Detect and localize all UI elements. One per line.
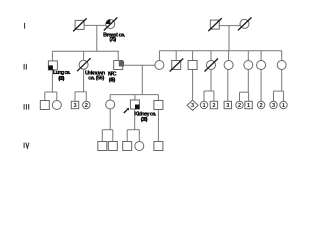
svg-text:1: 1 — [282, 103, 285, 109]
svg-text:2: 2 — [260, 103, 263, 109]
svg-text:2: 2 — [238, 103, 241, 109]
svg-text:(75): (75) — [109, 37, 116, 43]
svg-text:3: 3 — [226, 103, 229, 109]
svg-text:(38): (38) — [141, 117, 148, 123]
svg-text:1: 1 — [202, 103, 205, 109]
svg-text:(45): (45) — [109, 78, 116, 84]
svg-text:ca. (56): ca. (56) — [88, 76, 104, 82]
svg-text:NPC: NPC — [108, 72, 117, 78]
svg-text:3: 3 — [73, 103, 76, 109]
svg-text:2: 2 — [85, 103, 88, 109]
svg-text:3: 3 — [191, 103, 194, 109]
svg-text:2: 2 — [212, 103, 215, 109]
svg-text:1: 1 — [247, 103, 250, 109]
svg-text:(68): (68) — [58, 76, 64, 82]
svg-text:3: 3 — [272, 103, 275, 109]
